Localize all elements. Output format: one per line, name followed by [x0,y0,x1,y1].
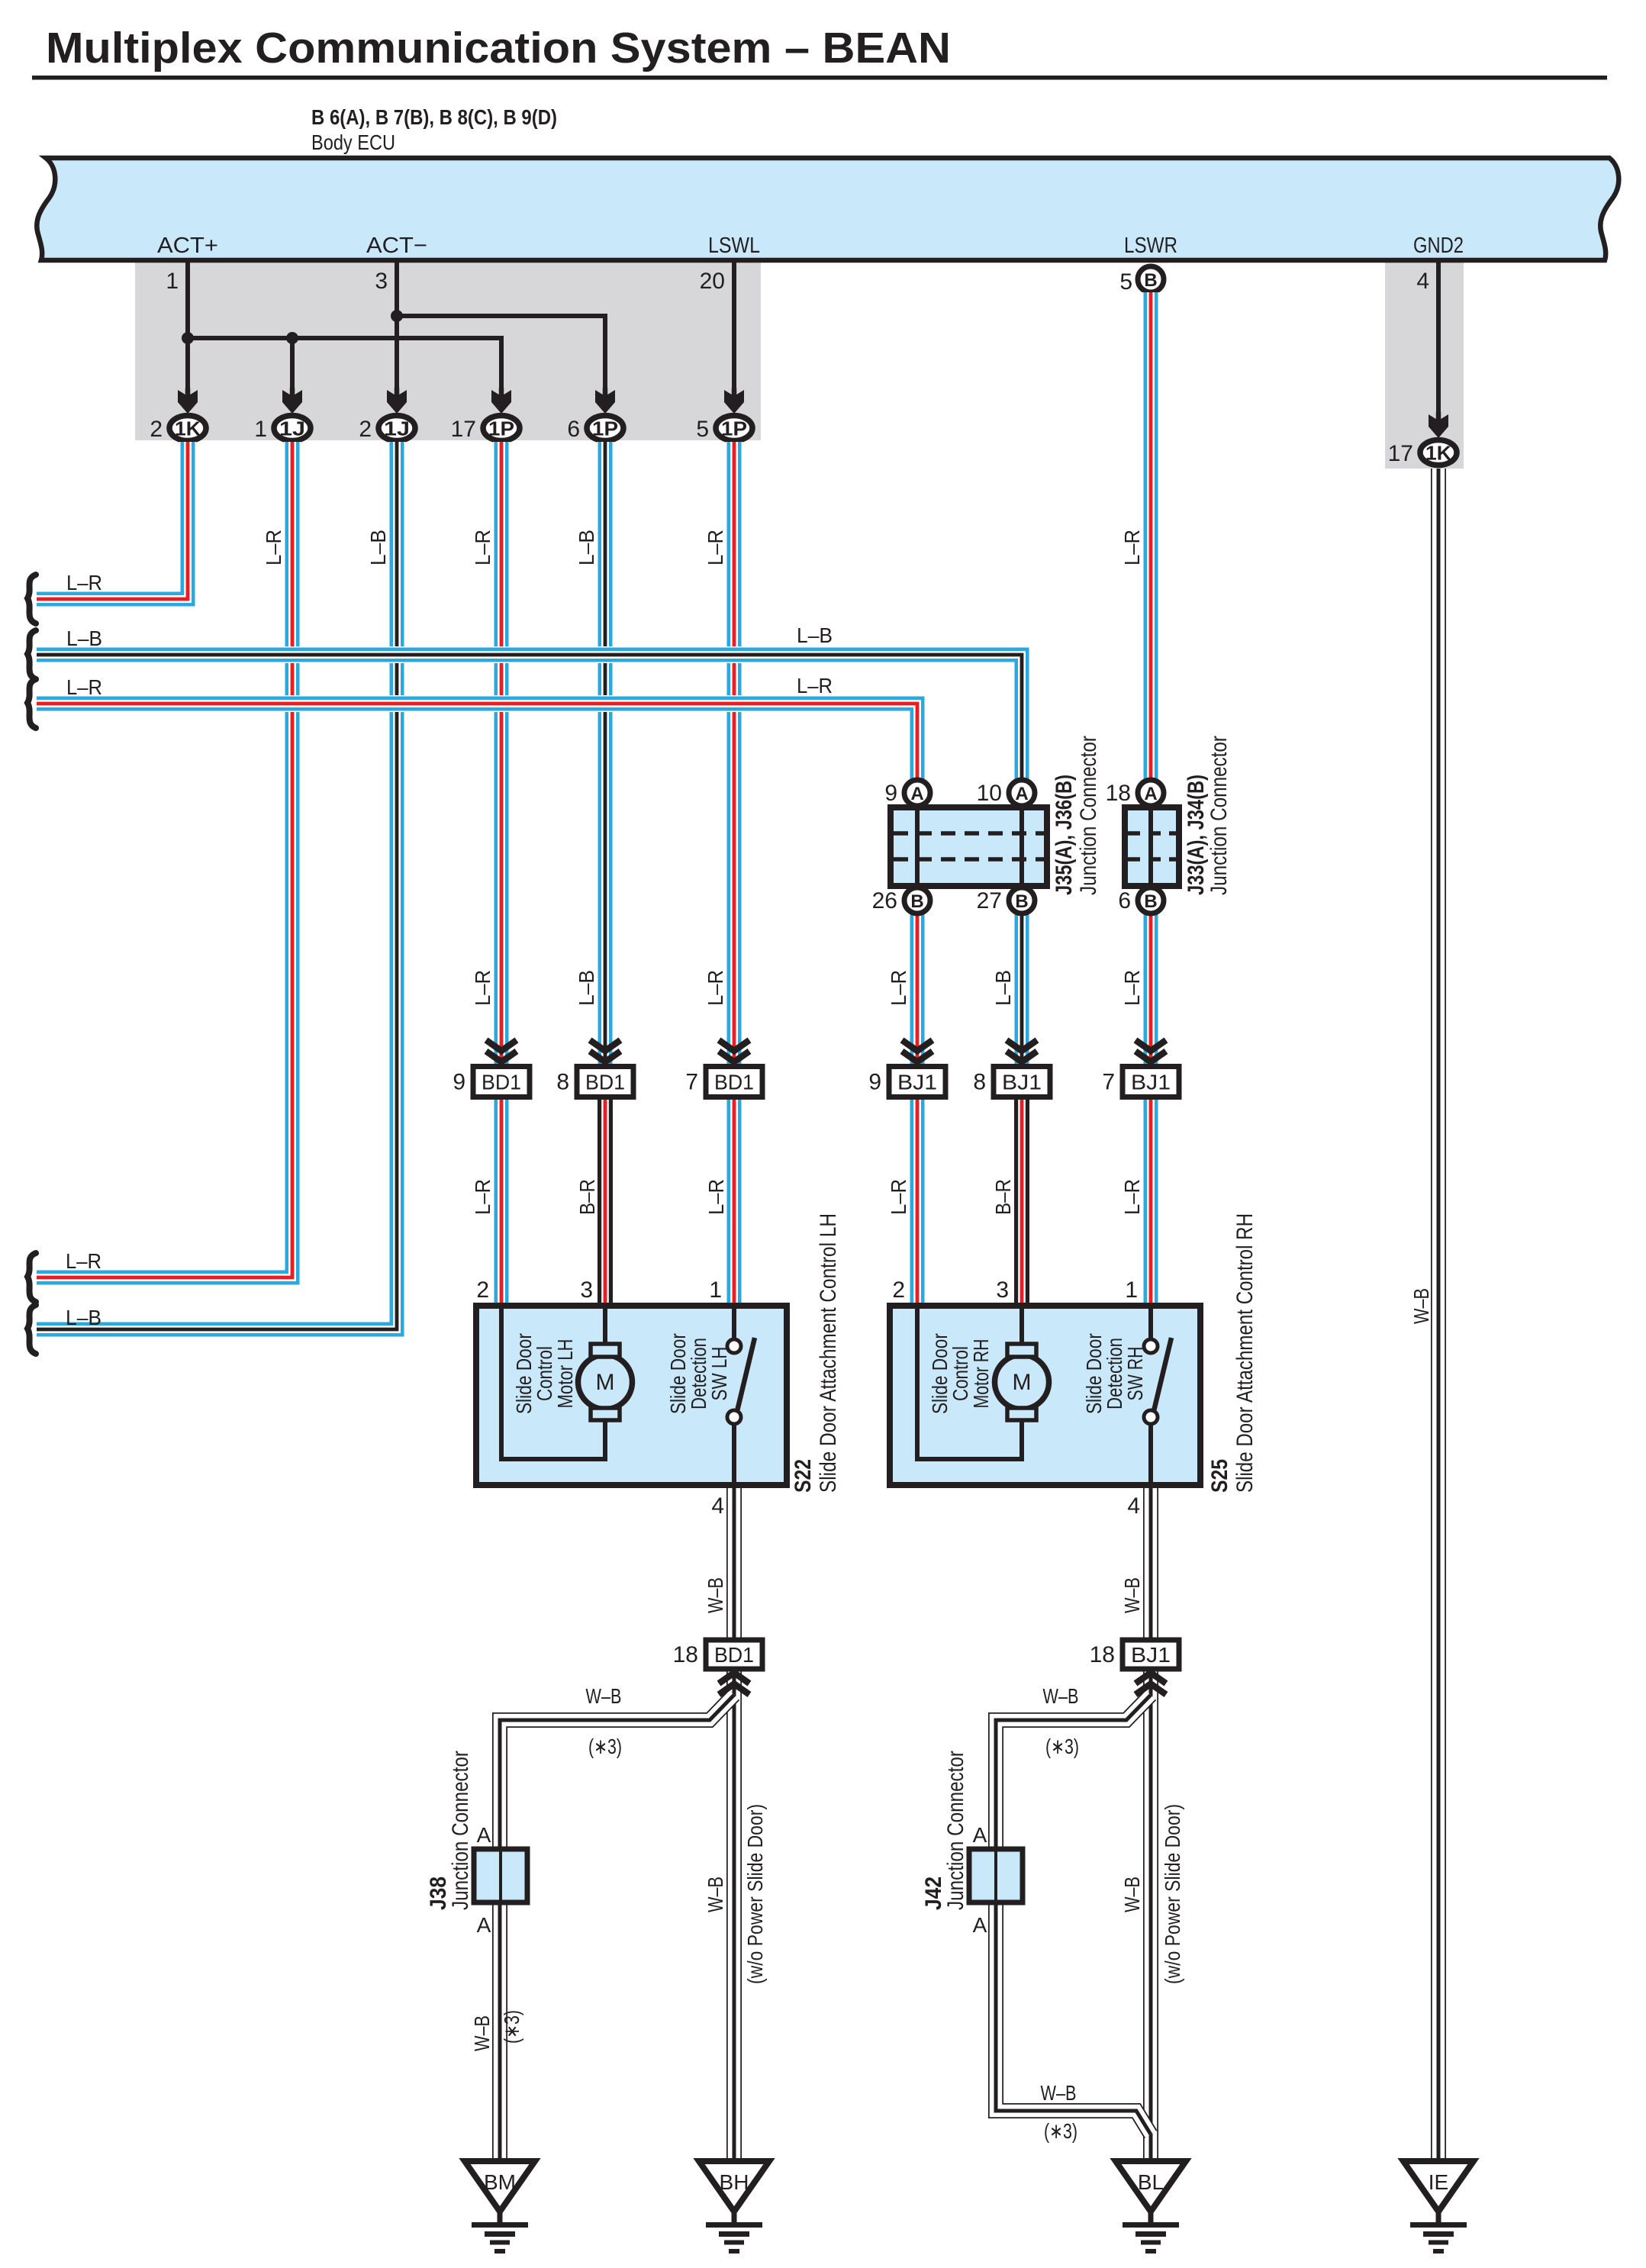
svg-text:2: 2 [476,1277,489,1303]
connector BD1 pin 7 [706,1067,762,1097]
svg-text:Motor LH: Motor LH [553,1339,577,1409]
svg-text:L–B: L–B [366,530,390,565]
svg-text:W–B: W–B [1409,1288,1433,1324]
wire ACT+ pin1 down [185,263,190,394]
junction connector J38 [474,1849,527,1902]
svg-text:BM: BM [484,2170,516,2194]
motor M S22 [578,1355,633,1409]
ground BH [699,2161,769,2212]
svg-text:A: A [477,1823,491,1847]
svg-text:5: 5 [696,417,709,442]
arrow chevrons into box at x=1508 [1135,1040,1166,1062]
wire LSWL pin20 down [732,263,736,394]
J35 pin 10 A [1009,780,1035,806]
connector BJ1 pin 18 [1123,1640,1179,1669]
svg-text:3: 3 [580,1277,593,1303]
svg-text:4: 4 [1416,269,1429,294]
ground BL [1116,2161,1186,2212]
wire L-R from LSWR [1142,292,1159,780]
svg-text:IE: IE [1429,2170,1448,2194]
wire W-B branch to J42 [996,1695,1151,1849]
svg-text:A: A [910,784,923,804]
arrow chevrons into box at x=1202 [902,1040,933,1062]
svg-text:(∗3): (∗3) [588,1735,622,1758]
off-page brace L-R [27,679,36,728]
wire GND2 pin4 down [1436,263,1441,418]
svg-text:6: 6 [567,417,580,442]
wire L-B from 1J pin2 [37,442,397,1329]
arrow into 1J [282,390,302,414]
svg-text:L–R: L–R [704,1179,728,1215]
wire L-R BD1 to S22 pin1 [726,1097,742,1306]
svg-text:L–R: L–R [704,530,727,565]
svg-text:A: A [973,1823,987,1847]
junction 1J branch [286,332,298,344]
svg-text:2: 2 [359,417,372,442]
svg-text:8: 8 [973,1070,986,1095]
svg-text:L–B: L–B [575,530,598,565]
svg-text:(∗3): (∗3) [1044,2119,1077,2143]
Body ECU block B6/B7/B8/B9 [37,158,1619,260]
svg-text:20: 20 [700,269,725,294]
svg-text:1K: 1K [1425,442,1451,465]
S25 motor circuit loop [917,1309,1022,1459]
wire ACT- branch horizontal [397,316,605,394]
off-page brace L-R lower [27,1253,36,1302]
svg-text:A: A [1015,784,1028,804]
wire L-B horizontal to J35 pin10 [37,655,1022,780]
svg-text:6: 6 [1118,888,1131,913]
svg-text:W–B: W–B [1041,2081,1077,2105]
svg-text:SW LH: SW LH [707,1347,731,1401]
svg-text:17: 17 [451,417,476,442]
wire L-R from 1J pin1 [37,442,292,1277]
svg-text:27: 27 [977,888,1002,913]
connector 1J pin1 [274,416,311,441]
svg-text:17: 17 [1388,441,1413,466]
svg-text:BD1: BD1 [714,1071,754,1094]
svg-text:B: B [910,891,923,912]
connector BD1 pin 18 [706,1640,762,1669]
svg-text:1J: 1J [279,417,305,440]
slide door detection switch LH [732,1309,736,1339]
svg-text:L–B: L–B [797,623,833,647]
svg-text:3: 3 [996,1277,1009,1303]
arrow into 1J [387,390,407,414]
arrow chevrons into box at x=793 [590,1040,620,1062]
svg-text:18: 18 [1106,781,1131,806]
svg-text:J33(A), J34(B): J33(A), J34(B) [1184,775,1209,895]
connector shading left [135,263,761,440]
off-page brace L-R top [27,575,36,623]
svg-text:Junction Connector: Junction Connector [448,1751,473,1910]
connector BD1 pin 8 [577,1067,633,1097]
wire L-R J33 pin6 to BJ1 [1142,913,1159,1067]
svg-text:BJ1: BJ1 [897,1071,937,1094]
wire ACT+ branch horizontal [188,338,501,394]
junction ACT+ branch [182,332,194,344]
svg-text:8: 8 [556,1070,569,1095]
svg-text:L–R: L–R [887,1179,910,1215]
arrow into 1K GND2 [1429,414,1448,438]
off-page brace L-B [27,630,36,679]
wire L-R from 1K pin2 [37,442,188,599]
svg-text:L–B: L–B [66,627,102,650]
svg-text:M: M [596,1370,615,1395]
connector shading GND2 [1385,263,1464,469]
wire W-B main to BH [726,1669,742,2161]
svg-text:9: 9 [453,1070,465,1095]
wire L-B J35 pin27 to BJ1 [1013,913,1030,1067]
svg-text:L–R: L–R [887,970,910,1006]
svg-text:Motor RH: Motor RH [969,1339,993,1409]
svg-text:Body ECU: Body ECU [311,130,395,154]
svg-text:3: 3 [375,269,388,294]
svg-text:1P: 1P [592,417,618,440]
arrow into 1K [178,390,198,414]
J35 pin 9 A [904,780,930,806]
svg-text:1K: 1K [175,417,201,440]
wire L-R J35 pin26 to BJ1 [909,913,926,1067]
svg-text:Slide Door Attachment Control: Slide Door Attachment Control LH [816,1213,841,1493]
svg-text:L–R: L–R [704,970,727,1006]
wire L-B from 1P pin6 [597,442,614,1067]
svg-text:L–R: L–R [471,970,494,1006]
off-page brace L-B lower [27,1305,36,1354]
connector BD1 pin 9 [473,1067,530,1097]
svg-text:1: 1 [1125,1277,1138,1303]
junction ACT- branch [391,310,403,322]
svg-text:BL: BL [1138,2170,1164,2194]
connector BJ1 pin 7 [1123,1067,1179,1097]
ground IE [1403,2161,1474,2212]
svg-text:W–B: W–B [586,1684,622,1708]
svg-text:Junction Connector: Junction Connector [1076,736,1101,895]
wire L-R BJ1 to S25 pin1 [1142,1097,1159,1306]
svg-text:9: 9 [868,1070,881,1095]
svg-text:S22: S22 [791,1459,816,1493]
connector 1K pin17 GND2 [1420,440,1457,466]
wire W-B J42 return to main [996,1902,1151,2134]
svg-text:ACT−: ACT− [366,234,427,258]
svg-text:7: 7 [1102,1070,1115,1095]
S22 motor circuit loop [501,1309,605,1459]
wire L-R BD1 to S22 pin2 [493,1097,510,1306]
svg-text:2: 2 [150,417,163,442]
arrow into 1P [491,390,511,414]
junction connector J35(A) J36(B) [891,807,1047,886]
wire branch to 1J pin1 [290,338,295,394]
svg-text:S25: S25 [1207,1459,1232,1493]
svg-text:BH: BH [720,2170,749,2194]
arrow chevrons up into BD1-18 [719,1673,749,1695]
junction connector J33(A) J34(B) [1125,807,1179,886]
connector 1P pin6 [587,416,623,441]
motor M S25 [995,1355,1049,1409]
svg-text:18: 18 [1090,1642,1115,1667]
svg-text:1: 1 [254,417,267,442]
arrow chevrons into box at x=657 [486,1040,517,1062]
svg-text:9: 9 [884,781,897,806]
svg-text:(∗3): (∗3) [500,2010,523,2044]
svg-text:L–R: L–R [262,530,285,565]
wire B-R BD1 to S22 pin3 [597,1097,614,1306]
svg-text:LSWR: LSWR [1124,234,1177,258]
svg-text:L–R: L–R [66,571,102,594]
svg-text:BD1: BD1 [482,1071,521,1094]
svg-text:L–R: L–R [797,674,833,697]
svg-text:L–R: L–R [471,530,494,565]
wire L-R from 1P pin17 [493,442,510,1067]
wire W-B S22 pin4 to BD1 pin18 [726,1485,742,1641]
connector 1K pin2 [169,416,206,441]
S22 Slide Door Attachment Control LH [476,1306,787,1485]
connector 1P pin17 [483,416,520,441]
svg-text:A: A [1144,784,1157,804]
svg-text:L–B: L–B [66,1306,101,1329]
svg-text:LSWL: LSWL [708,234,760,258]
svg-text:10: 10 [977,781,1002,806]
wire W-B GND2 to IE [1431,469,1446,2161]
svg-text:L–B: L–B [991,970,1015,1006]
arrow chevrons into box at x=1339 [1007,1040,1037,1062]
svg-text:1J: 1J [384,417,410,440]
svg-text:B: B [1144,891,1157,912]
wire L-R BJ1 to S25 pin2 [909,1097,926,1306]
wire B-R BJ1 to S25 pin3 [1013,1097,1031,1306]
wire W-B main to BL [1143,1669,1158,2161]
svg-text:A: A [973,1913,987,1937]
svg-text:2: 2 [892,1277,905,1303]
connector BJ1 pin 9 [889,1067,945,1097]
J35 pin 26 B [904,888,930,913]
svg-text:Slide Door Attachment Control: Slide Door Attachment Control RH [1232,1213,1258,1493]
J33 pin 6 B [1138,888,1164,913]
svg-text:M: M [1013,1370,1032,1395]
svg-text:L–R: L–R [1120,1179,1144,1215]
svg-text:ACT+: ACT+ [157,234,218,258]
svg-text:BD1: BD1 [714,1643,754,1667]
svg-text:4: 4 [711,1493,724,1519]
svg-text:W–B: W–B [704,1577,727,1613]
svg-text:L–R: L–R [471,1179,494,1215]
J33 pin 18 A [1138,780,1164,806]
svg-text:1: 1 [166,269,179,294]
svg-text:W–B: W–B [1120,1577,1144,1613]
svg-text:L–R: L–R [1120,530,1144,565]
svg-text:A: A [477,1913,491,1937]
connector 1J pin2 [378,416,415,441]
svg-text:B 6(A), B 7(B), B 8(C), B 9(D): B 6(A), B 7(B), B 8(C), B 9(D) [311,105,557,129]
svg-text:BJ1: BJ1 [1002,1071,1042,1094]
svg-text:B–R: B–R [991,1179,1015,1215]
wire W-B J38 to BM [492,1902,507,2161]
svg-text:Junction Connector: Junction Connector [943,1751,968,1910]
wire W-B S25 pin4 to BJ1 pin18 [1143,1485,1158,1641]
svg-text:5: 5 [1119,269,1132,295]
arrow chevrons into box at x=962 [719,1040,749,1062]
svg-text:L–B: L–B [575,970,598,1006]
svg-text:(∗3): (∗3) [1045,1735,1079,1758]
svg-text:4: 4 [1127,1493,1140,1519]
connector circle B LSWR [1138,266,1164,292]
svg-text:18: 18 [673,1642,698,1667]
wire ACT- pin3 down [395,263,399,394]
svg-text:B: B [1015,891,1028,912]
svg-text:BJ1: BJ1 [1131,1071,1171,1094]
svg-text:L–R: L–R [1120,970,1144,1006]
J35 pin 27 B [1009,888,1035,913]
ground BM [465,2161,535,2212]
svg-text:GND2: GND2 [1413,234,1464,258]
svg-text:L–R: L–R [66,1249,101,1273]
svg-text:BD1: BD1 [585,1071,625,1094]
svg-text:W–B: W–B [704,1877,727,1912]
svg-text:B–R: B–R [575,1179,599,1215]
junction connector J42 [969,1849,1023,1902]
svg-text:J35(A), J36(B): J35(A), J36(B) [1052,775,1077,895]
svg-text:W–B: W–B [1120,1877,1144,1912]
arrow into 1P [595,390,615,414]
wire W-B branch to J38 [500,1695,734,1849]
S25 Slide Door Attachment Control RH [890,1306,1200,1485]
arrow into 1P [724,390,744,414]
wire L-R from 1P pin5 LSWL [726,442,742,1067]
svg-text:SW RH: SW RH [1123,1347,1147,1401]
svg-text:Multiplex Communication System: Multiplex Communication System – BEAN [46,24,951,72]
svg-text:(w/o Power Slide Door): (w/o Power Slide Door) [1161,1804,1184,1984]
svg-text:W–B: W–B [470,2015,494,2051]
svg-text:L–R: L–R [66,675,102,699]
svg-text:Junction Connector: Junction Connector [1206,736,1232,895]
svg-text:1P: 1P [488,417,514,440]
svg-text:W–B: W–B [1043,1684,1079,1708]
slide door detection switch RH [1148,1309,1153,1339]
svg-text:BJ1: BJ1 [1131,1643,1171,1667]
connector BJ1 pin 8 [994,1067,1050,1097]
svg-text:(w/o Power Slide Door): (w/o Power Slide Door) [743,1804,767,1984]
connector 1P pin5 [716,416,752,441]
svg-text:B: B [1144,270,1157,291]
svg-text:1P: 1P [721,417,747,440]
arrow chevrons up into BJ1-18 [1135,1673,1166,1695]
svg-text:26: 26 [872,888,897,913]
svg-text:7: 7 [685,1070,698,1095]
wire L-R horizontal to J35 pin9 [37,704,917,780]
svg-text:1: 1 [709,1277,722,1303]
